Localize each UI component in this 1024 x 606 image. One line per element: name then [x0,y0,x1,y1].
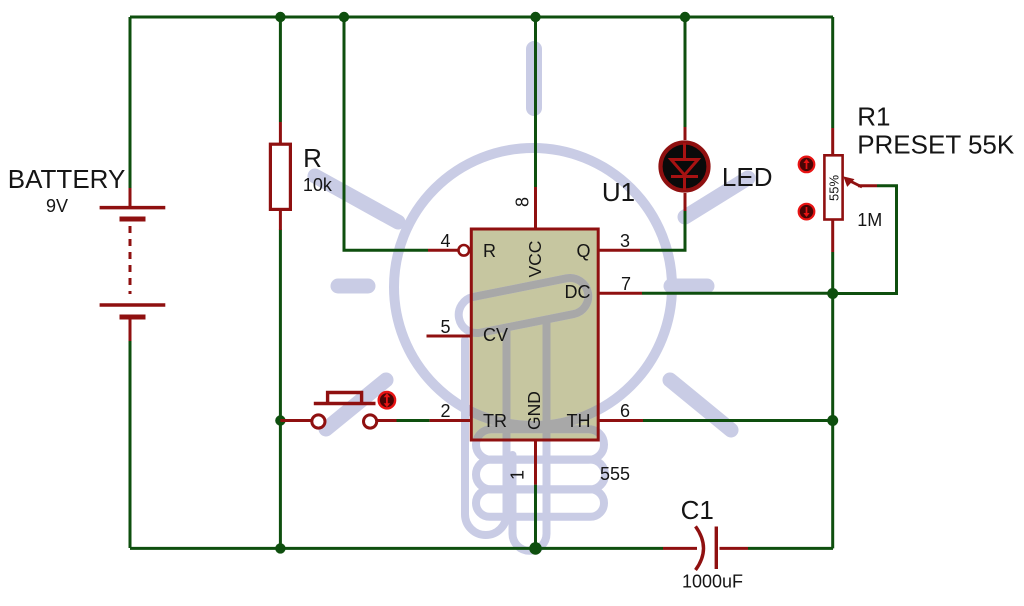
wire bottom rail right [748,547,833,550]
resistor R 10k [270,122,290,230]
wire left rail lower [129,340,132,548]
junction node right rail pin7 [827,288,838,299]
junction node right rail pin6 [827,415,838,426]
svg-text:10k: 10k [303,175,333,195]
pin 4 stub [428,249,458,252]
wire pin 1 gnd [534,485,537,549]
pin 2 stub [430,419,472,422]
wire pin 6 to right rail [643,419,833,422]
svg-text:Q: Q [576,241,590,261]
svg-text:CV: CV [483,325,508,345]
svg-text:TR: TR [483,411,507,431]
svg-text:2: 2 [440,401,450,421]
junction node top rail at resistor [275,12,285,22]
push button switch [280,393,396,429]
svg-text:555: 555 [600,464,630,484]
wire pin 8 vcc [534,17,537,187]
svg-text:5: 5 [440,317,450,337]
svg-text:3: 3 [620,231,630,251]
IC U1 555 timer border and pins [471,229,598,440]
up adjust button [799,157,815,173]
pin 7 stub [598,292,642,295]
switch actuator button [379,392,395,408]
svg-text:C1: C1 [681,495,714,525]
wire resistor column lower [279,230,282,549]
pin 5 stub [427,335,472,338]
pin 4 inversion bubble [459,245,470,256]
svg-text:TH: TH [567,411,591,431]
down adjust button [799,204,815,220]
svg-text:BATTERY: BATTERY [8,164,126,194]
pin 3 stub [598,249,640,252]
wire pin 7 to right rail [642,292,833,295]
pin 6 stub [598,419,643,422]
svg-text:55%: 55% [827,175,842,201]
svg-text:7: 7 [621,274,631,294]
svg-text:1: 1 [508,470,528,480]
wire right rail lower [831,252,834,548]
wire led to pin 3 [640,211,685,250]
pin 1 stub [534,440,537,485]
wire resistor column upper [279,17,282,122]
battery BAT1 [100,188,166,341]
IC U1 555 timer body [471,229,598,440]
wire to pin 4 [344,17,428,250]
svg-text:6: 6 [620,401,630,421]
svg-text:VCC: VCC [525,241,545,278]
svg-text:LED: LED [722,162,773,192]
svg-text:R: R [483,241,496,261]
capacitor C1 [663,526,748,570]
wire top rail [130,16,833,19]
watermark portion over IC (gray) [394,148,672,551]
wire pot wiper loop [833,186,897,294]
wire switch to pin 2 [397,419,430,422]
junction node top rail at led [680,12,690,22]
svg-text:8: 8 [513,197,533,207]
junction node bottom rail at gnd [529,542,542,555]
svg-text:4: 4 [440,231,450,251]
svg-text:PRESET 55K: PRESET 55K [857,129,1015,159]
svg-text:R1: R1 [857,102,890,132]
junction node switch [275,415,285,425]
junction node top rail at vcc [530,12,540,22]
junction node top rail at pin4 wire [339,12,349,22]
watermark light bulb (lavender) [315,49,748,551]
svg-text:DC: DC [565,282,591,302]
wire led column [684,17,687,127]
junction node bottom rail at resistor column [275,543,285,553]
svg-text:GND: GND [524,391,544,430]
wiper arrow [847,180,862,188]
svg-text:R: R [303,143,322,173]
wire right rail upper [831,17,834,128]
svg-text:1M: 1M [857,210,882,230]
potentiometer R1 PRESET [799,128,877,252]
svg-text:9V: 9V [46,196,68,216]
svg-text:1000uF: 1000uF [682,572,743,592]
svg-text:U1: U1 [602,177,635,207]
wire bottom rail left [130,547,663,550]
wire left rail upper [129,17,132,188]
LED D1 [661,127,709,211]
pin 8 stub [534,187,537,229]
